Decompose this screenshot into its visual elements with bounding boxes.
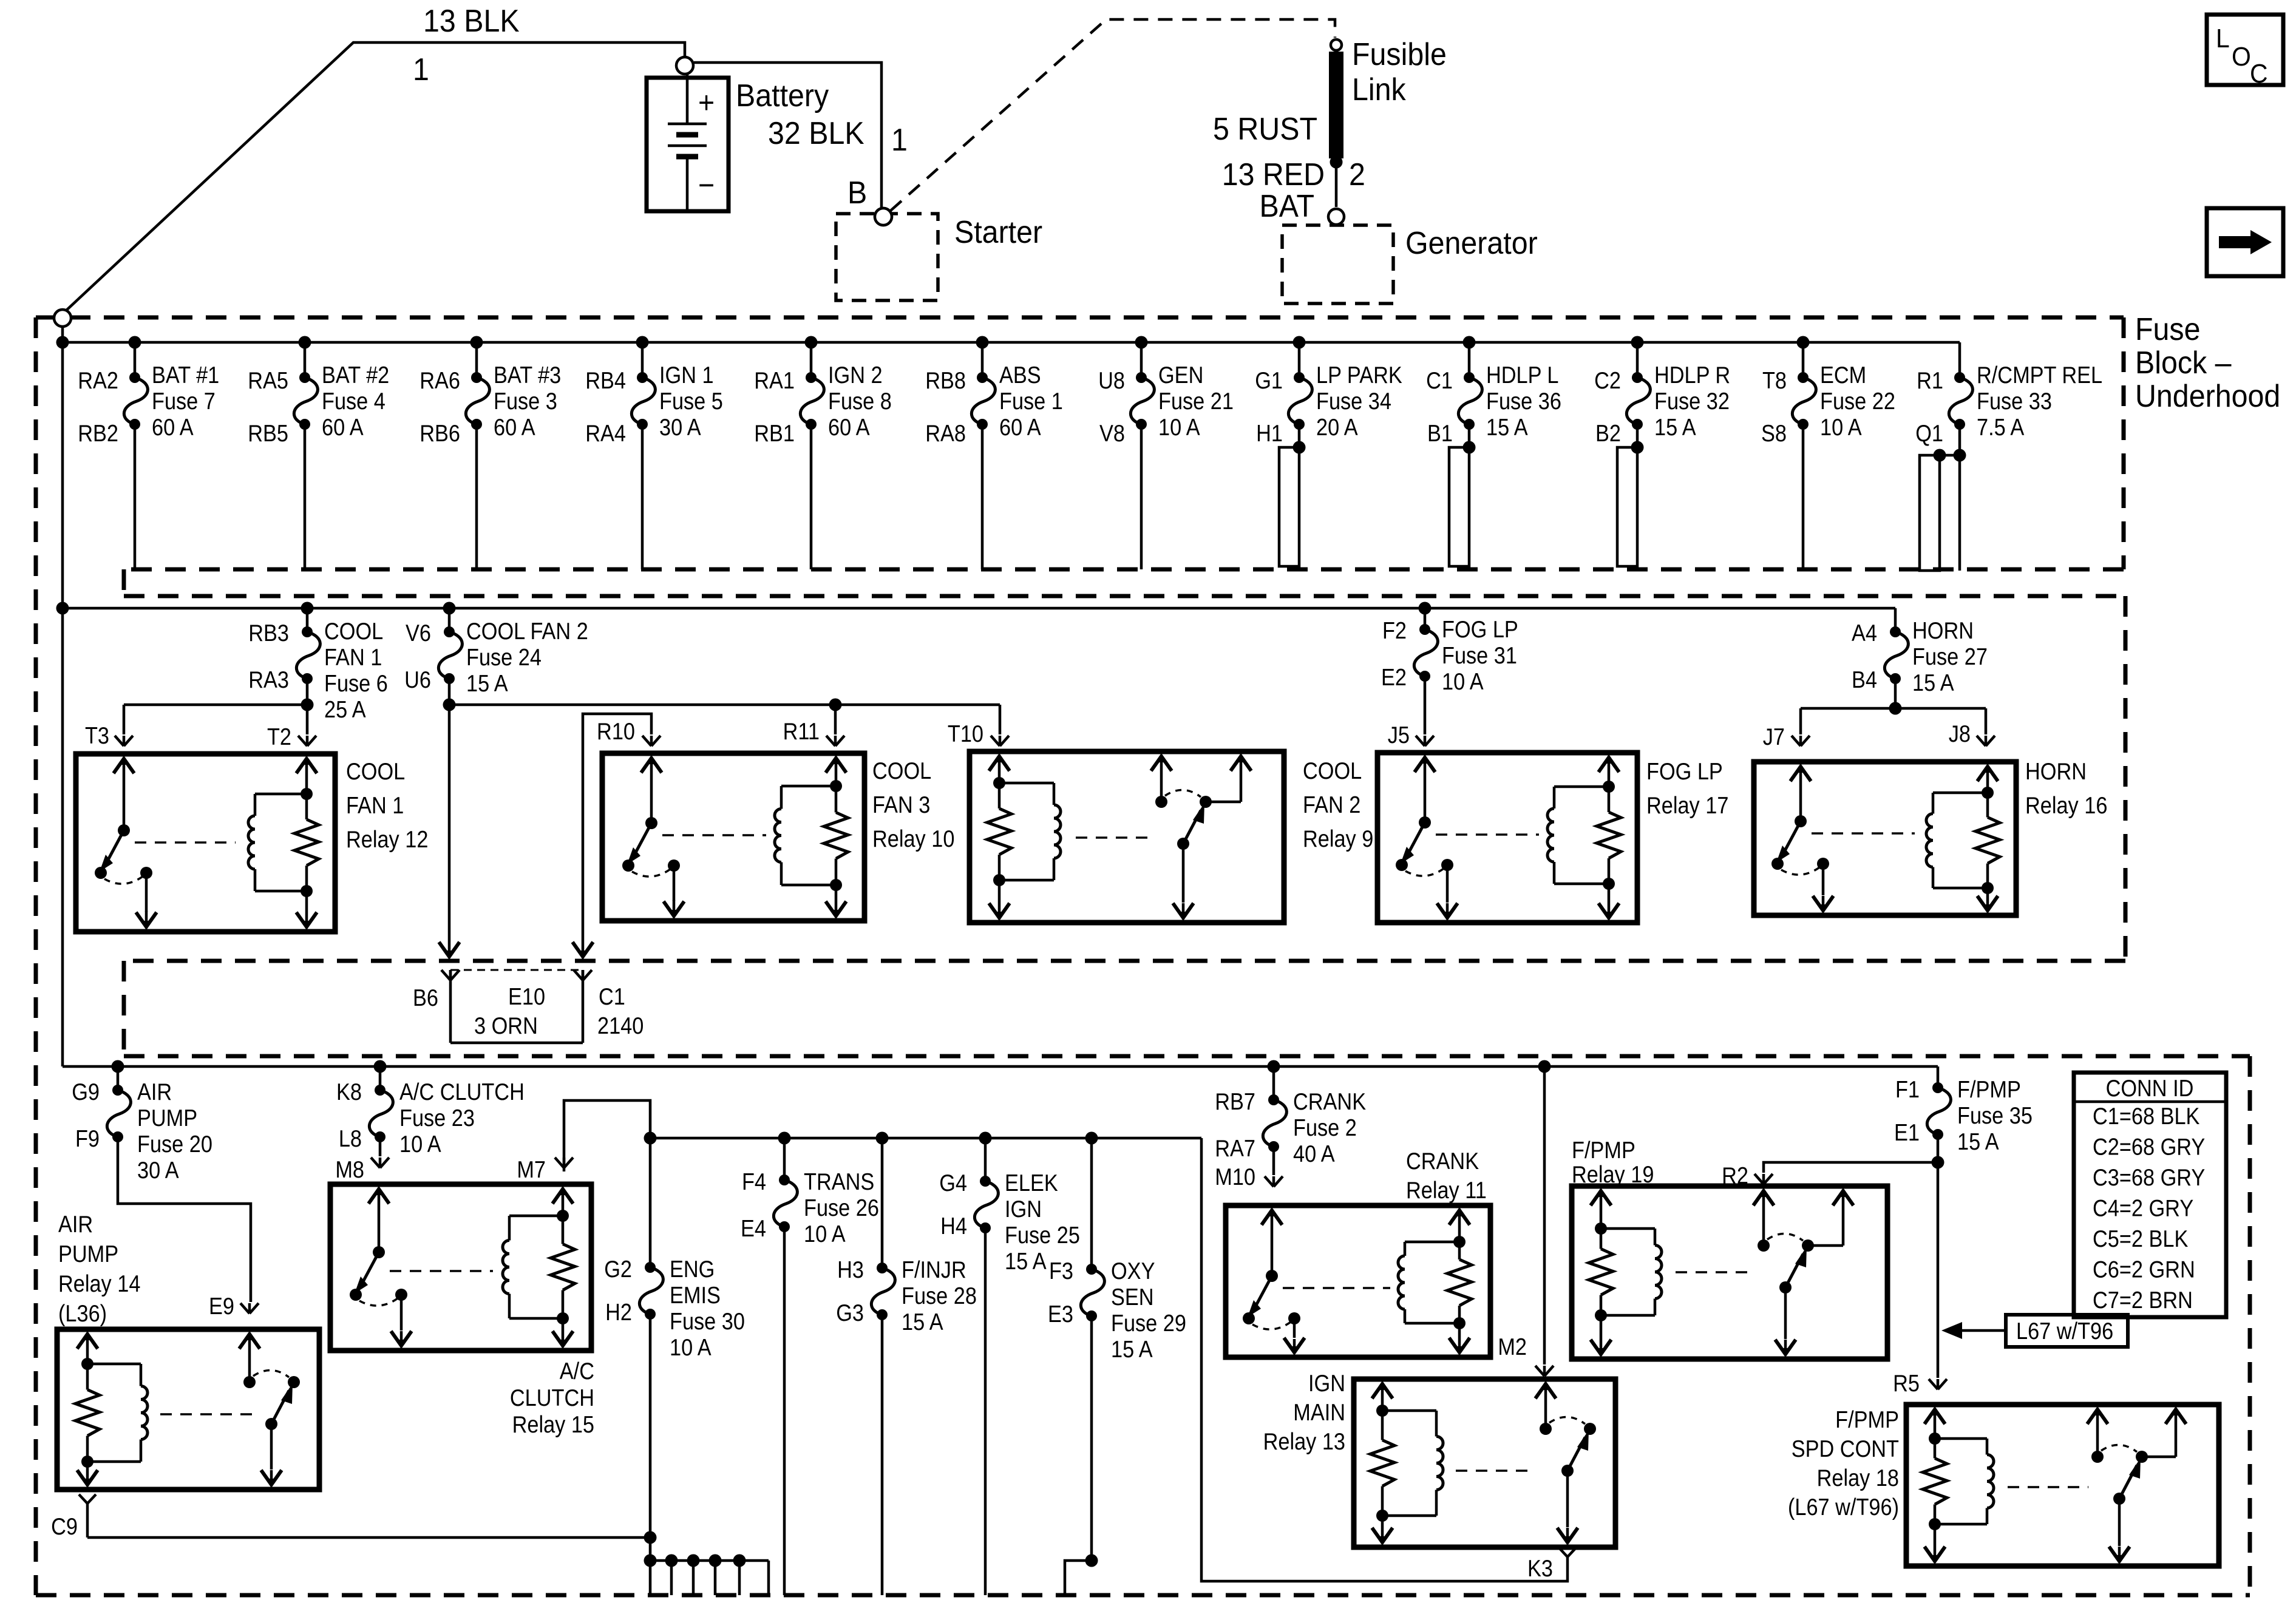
relay 14 AIR PUMP box <box>57 1211 319 1490</box>
fuse F26 TRANS (F4/E4) <box>741 1132 879 1596</box>
fuse block row2 dashed border top <box>124 594 2125 598</box>
svg-text:Fuse 21: Fuse 21 <box>1158 388 1234 415</box>
svg-text:Fuse 31: Fuse 31 <box>1442 642 1517 669</box>
fuse F8 IGN 2 (RA1/RB1) <box>754 336 892 570</box>
svg-text:ELEK: ELEK <box>1005 1170 1058 1196</box>
svg-text:R/CMPT REL: R/CMPT REL <box>1977 362 2102 388</box>
svg-text:SEN: SEN <box>1111 1284 1154 1310</box>
svg-text:Battery: Battery <box>736 78 829 113</box>
wire fusible link to generator <box>1330 156 1343 208</box>
svg-text:Relay 12: Relay 12 <box>346 826 428 853</box>
node fuse block feed <box>54 310 71 327</box>
battery B+ wire to starter corner <box>694 63 881 208</box>
svg-text:G1: G1 <box>1255 367 1283 394</box>
fuse F36 HDLP L (C1/B1) <box>1426 336 1561 567</box>
svg-text:FOG LP: FOG LP <box>1646 758 1723 785</box>
svg-text:C4=2 GRY: C4=2 GRY <box>2093 1195 2193 1221</box>
svg-text:10 A: 10 A <box>399 1131 441 1158</box>
svg-text:K8: K8 <box>336 1079 362 1105</box>
svg-text:Fuse 4: Fuse 4 <box>322 388 385 415</box>
fuse F30 ENG EMIS (G2/H2) <box>604 1256 745 1561</box>
svg-text:Fusible: Fusible <box>1352 36 1447 72</box>
svg-text:RB5: RB5 <box>248 420 288 447</box>
fuse block row2 dashed border right <box>2124 596 2128 961</box>
svg-text:HDLP L: HDLP L <box>1486 362 1558 388</box>
svg-text:Fuse 33: Fuse 33 <box>1977 388 2052 415</box>
node J5 <box>1388 722 1434 748</box>
svg-text:15 A: 15 A <box>1957 1128 1999 1155</box>
svg-text:F/INJR: F/INJR <box>902 1256 966 1283</box>
svg-text:A/C: A/C <box>560 1358 594 1385</box>
label Fusible <box>1352 36 1447 72</box>
label Battery <box>736 78 829 113</box>
svg-text:60 A: 60 A <box>152 414 194 441</box>
svg-text:60 A: 60 A <box>322 414 364 441</box>
svg-text:C: C <box>2250 59 2268 89</box>
svg-text:FAN 2: FAN 2 <box>1303 792 1360 818</box>
relay 9 actuator dashed link <box>1076 836 1152 839</box>
main feed wire left side <box>61 327 64 1066</box>
relay 9 switch contacts <box>1151 754 1251 920</box>
svg-text:15 A: 15 A <box>1654 414 1696 441</box>
node T10 <box>948 720 1009 747</box>
svg-text:E1: E1 <box>1894 1119 1920 1146</box>
fuse F3 BAT #3 (RA6/RB6) <box>419 336 561 570</box>
fuse F20 AIR PUMP (G9/F9) <box>72 1060 251 1303</box>
label 2140 <box>597 1012 644 1039</box>
svg-text:Relay 17: Relay 17 <box>1646 792 1728 819</box>
label wire gauge 2 <box>1349 157 1365 192</box>
svg-text:COOL: COOL <box>346 758 405 785</box>
generator (dashed box) <box>1282 209 1393 303</box>
svg-text:15 A: 15 A <box>902 1309 943 1335</box>
node M10 <box>1265 1176 1283 1187</box>
relay 12 actuator dashed link <box>135 841 236 844</box>
svg-text:(L67 w/T96): (L67 w/T96) <box>1788 1494 1899 1520</box>
svg-text:A4: A4 <box>1852 620 1877 646</box>
svg-text:OXY: OXY <box>1111 1258 1155 1284</box>
label 13 BLK <box>423 3 520 38</box>
fuse block row1 dashed border bottom <box>124 568 2124 572</box>
svg-text:B: B <box>847 175 867 210</box>
fuse block dashed connector row2-row3 <box>122 961 126 1056</box>
svg-text:Link: Link <box>1352 72 1407 107</box>
svg-text:E2: E2 <box>1381 664 1407 691</box>
svg-text:30 A: 30 A <box>137 1157 179 1184</box>
svg-text:AIR: AIR <box>137 1079 172 1105</box>
svg-text:Fuse 7: Fuse 7 <box>152 388 216 415</box>
svg-text:C1: C1 <box>1426 367 1453 394</box>
svg-text:F9: F9 <box>75 1125 100 1152</box>
svg-text:2: 2 <box>1349 157 1365 192</box>
svg-text:B1: B1 <box>1427 420 1453 447</box>
svg-text:Relay 10: Relay 10 <box>872 825 954 852</box>
svg-text:7.5 A: 7.5 A <box>1977 414 2025 441</box>
svg-text:Fuse 8: Fuse 8 <box>828 388 892 415</box>
relay 12 coil and resistor <box>248 756 319 929</box>
svg-text:RB7: RB7 <box>1215 1088 1255 1115</box>
fuse F24 COOL FAN 2 (V6/U6) <box>404 602 588 711</box>
svg-text:CRANK: CRANK <box>1406 1148 1479 1175</box>
fuse F21 GEN (U8/V8) <box>1098 336 1234 570</box>
svg-text:GEN: GEN <box>1158 362 1203 388</box>
svg-text:20 A: 20 A <box>1316 414 1358 441</box>
relay 18 F/PMP SPD CONT box <box>1788 1405 2219 1566</box>
svg-text:IGN: IGN <box>1005 1196 1042 1222</box>
svg-text:Relay 19: Relay 19 <box>1572 1161 1654 1188</box>
svg-text:ABS: ABS <box>999 362 1041 388</box>
svg-text:15 A: 15 A <box>466 670 508 697</box>
svg-text:Fuse 27: Fuse 27 <box>1912 643 1988 670</box>
fuse F33 R/CMPT REL (R1/Q1) <box>1915 342 2102 571</box>
wire K3 to ignition bus <box>1201 1138 1567 1581</box>
svg-text:Relay 11: Relay 11 <box>1406 1177 1487 1204</box>
svg-text:Fuse 25: Fuse 25 <box>1005 1222 1080 1249</box>
svg-text:G4: G4 <box>939 1170 967 1196</box>
svg-text:IGN: IGN <box>1308 1370 1345 1397</box>
svg-text:FAN 3: FAN 3 <box>872 792 930 818</box>
svg-text:Fuse 22: Fuse 22 <box>1820 388 1895 415</box>
svg-text:Relay 15: Relay 15 <box>512 1411 594 1438</box>
relay 15 switch contacts <box>350 1187 412 1348</box>
svg-text:COOL FAN 2: COOL FAN 2 <box>466 618 588 645</box>
label Generator <box>1405 225 1538 260</box>
svg-text:HORN: HORN <box>2025 758 2087 785</box>
svg-text:C3=68 GRY: C3=68 GRY <box>2093 1164 2205 1191</box>
wire C9 ground return <box>87 1520 657 1544</box>
node R5 <box>1893 1370 1947 1397</box>
svg-text:FAN 1: FAN 1 <box>346 792 404 819</box>
fuse block row2 dashed border bottom <box>124 959 2125 963</box>
svg-text:CRANK: CRANK <box>1293 1088 1367 1115</box>
svg-text:T8: T8 <box>1762 367 1787 394</box>
node battery positive terminal <box>676 57 693 74</box>
wire drop to T10 <box>999 705 1002 734</box>
svg-text:Q1: Q1 <box>1915 420 1943 447</box>
svg-text:E4: E4 <box>741 1215 766 1242</box>
svg-text:G2: G2 <box>604 1256 632 1283</box>
fuse block outer dashed border left <box>34 317 38 1595</box>
svg-text:10 A: 10 A <box>804 1221 846 1247</box>
fuse F2 CRANK (RB7/RA7) <box>1215 1060 1366 1190</box>
svg-text:C5=2 BLK: C5=2 BLK <box>2093 1225 2189 1252</box>
svg-text:IGN 2: IGN 2 <box>828 362 883 388</box>
svg-text:Fuse 5: Fuse 5 <box>659 388 723 415</box>
svg-text:HORN: HORN <box>1912 617 1974 644</box>
svg-text:BAT #1: BAT #1 <box>152 362 219 388</box>
relay 16 switch contacts <box>1771 764 1833 913</box>
svg-text:R10: R10 <box>597 718 635 745</box>
svg-text:C1=68 BLK: C1=68 BLK <box>2093 1103 2200 1130</box>
fuse F27 HORN (A4/B4) <box>1852 608 1988 715</box>
svg-text:BAT #3: BAT #3 <box>494 362 561 388</box>
label E10 <box>508 983 545 1010</box>
svg-text:C9: C9 <box>51 1513 78 1540</box>
svg-text:J7: J7 <box>1763 724 1785 750</box>
relay 16 coil and resistor <box>1926 764 2000 913</box>
fusible link <box>1329 52 1343 158</box>
relay 14 actuator dashed link <box>160 1413 260 1415</box>
svg-text:BAT: BAT <box>1260 188 1314 223</box>
svg-text:C2=68 GRY: C2=68 GRY <box>2093 1133 2205 1160</box>
svg-text:A/C CLUTCH: A/C CLUTCH <box>399 1079 525 1105</box>
svg-text:L8: L8 <box>339 1125 362 1152</box>
svg-text:M7: M7 <box>517 1156 546 1183</box>
node J7 <box>1763 724 1810 750</box>
label 13 RED <box>1222 157 1325 192</box>
wire E10-C1 to R10 <box>572 714 651 959</box>
relay 13 IGN MAIN box <box>1263 1370 1615 1547</box>
legend LOC box <box>2207 15 2283 89</box>
fuse block row3 dashed border right <box>2248 1056 2252 1595</box>
svg-text:Fuse 32: Fuse 32 <box>1654 388 1730 415</box>
fuse block outer dashed border top <box>36 316 2124 320</box>
node R11 <box>783 718 844 746</box>
svg-text:Underhood: Underhood <box>2135 378 2280 413</box>
relay 12 COOL FAN 1 box <box>76 754 428 932</box>
svg-text:1: 1 <box>413 52 429 87</box>
svg-text:10 A: 10 A <box>1158 414 1200 441</box>
svg-text:Fuse 35: Fuse 35 <box>1957 1102 2033 1129</box>
label 3 ORN <box>474 1012 538 1039</box>
svg-text:TRANS: TRANS <box>804 1168 874 1195</box>
svg-text:RA7: RA7 <box>1215 1135 1255 1162</box>
svg-text:COOL: COOL <box>324 618 383 645</box>
svg-text:RA8: RA8 <box>925 420 966 447</box>
svg-text:BAT #2: BAT #2 <box>322 362 389 388</box>
svg-text:RB3: RB3 <box>248 620 289 646</box>
svg-text:Fuse 26: Fuse 26 <box>804 1195 879 1221</box>
node C9 <box>51 1494 96 1539</box>
relay 9 COOL FAN 2 box <box>970 751 1373 923</box>
relay 15 A/C CLUTCH box <box>330 1184 594 1437</box>
label B (starter terminal) <box>847 175 867 210</box>
fuse F22 ECM (T8/S8) <box>1761 336 1895 570</box>
svg-text:H3: H3 <box>837 1256 864 1283</box>
svg-text:S8: S8 <box>1761 420 1787 447</box>
svg-text:FAN 1: FAN 1 <box>324 644 382 671</box>
svg-text:Fuse 23: Fuse 23 <box>399 1105 475 1131</box>
svg-text:FOG LP: FOG LP <box>1442 616 1518 643</box>
svg-text:Relay 14: Relay 14 <box>58 1270 140 1297</box>
svg-text:RA3: RA3 <box>248 666 289 693</box>
svg-text:25 A: 25 A <box>324 696 366 723</box>
label Starter <box>954 214 1042 249</box>
bus row2 <box>56 602 1896 615</box>
node T3 <box>85 722 133 749</box>
svg-text:RA4: RA4 <box>585 420 626 447</box>
battery BAT1 <box>647 74 729 211</box>
svg-text:RB8: RB8 <box>925 367 966 394</box>
fuse F5 IGN 1 (RB4/RA4) <box>585 336 723 570</box>
relay 12 switch contacts <box>95 756 157 929</box>
svg-text:Fuse 1: Fuse 1 <box>999 388 1063 415</box>
relay 11 CRANK box <box>1226 1148 1490 1357</box>
fuse block row3 dashed border bottom <box>36 1593 2250 1598</box>
svg-text:Block –: Block – <box>2135 345 2232 380</box>
relay 11 actuator dashed link <box>1283 1287 1390 1289</box>
relay 17 FOG LP box <box>1377 753 1728 923</box>
svg-text:R5: R5 <box>1893 1370 1920 1397</box>
svg-text:T3: T3 <box>85 722 109 749</box>
wire horn fuse to J7/J8 <box>1801 708 1986 734</box>
relay 11 coil and resistor <box>1398 1208 1472 1355</box>
svg-text:MAIN: MAIN <box>1293 1399 1345 1426</box>
svg-text:U6: U6 <box>404 666 431 693</box>
svg-text:60 A: 60 A <box>999 414 1041 441</box>
relay 10 coil and resistor <box>775 756 848 918</box>
relay 18 actuator dashed link <box>2008 1486 2088 1488</box>
svg-text:M10: M10 <box>1215 1164 1255 1190</box>
wire drop to R11 <box>829 699 842 735</box>
svg-text:ECM: ECM <box>1820 362 1866 388</box>
svg-text:L67 w/T96: L67 w/T96 <box>2016 1318 2113 1344</box>
wire F/PMP fuse to R2 <box>1764 1162 1938 1173</box>
bus ignition feeds <box>650 1137 1201 1140</box>
svg-text:F4: F4 <box>742 1168 766 1195</box>
fuse F31 FOG LP (F2/E2) <box>1381 602 1518 735</box>
relay 16 HORN box <box>1754 758 2107 915</box>
node K3 <box>1527 1548 1576 1581</box>
fuse R7 BAT #1 (RA2/RB2) <box>78 336 219 570</box>
svg-text:COOL: COOL <box>872 758 931 784</box>
svg-text:CLUTCH: CLUTCH <box>510 1385 594 1411</box>
svg-text:13 RED: 13 RED <box>1222 157 1325 192</box>
fuse F34 LP PARK (G1/H1) <box>1255 336 1402 567</box>
svg-text:T10: T10 <box>948 720 983 747</box>
node M8 <box>335 1156 389 1183</box>
svg-text:Starter: Starter <box>954 214 1042 249</box>
svg-text:−: − <box>698 168 715 202</box>
svg-text:3 ORN: 3 ORN <box>474 1012 538 1039</box>
svg-text:O: O <box>2232 42 2251 72</box>
dashed wire starter to generator via fusible link <box>891 19 1335 211</box>
svg-text:30 A: 30 A <box>659 414 701 441</box>
callout L67 w/T96 <box>1941 1315 2128 1347</box>
svg-text:H1: H1 <box>1256 420 1283 447</box>
starter (dashed box) <box>836 208 938 300</box>
fuse F28 F/INJR (H3/G3) <box>836 1132 977 1596</box>
svg-text:COOL: COOL <box>1303 758 1362 784</box>
fuse F4 BAT #2 (RA5/RB5) <box>248 336 389 570</box>
svg-text:10 A: 10 A <box>1820 414 1862 441</box>
fuse block row3 dashed border top <box>124 1054 2250 1059</box>
label Fuse Block - Underhood <box>2135 311 2280 413</box>
svg-text:Fuse 20: Fuse 20 <box>137 1131 212 1158</box>
svg-text:Fuse 3: Fuse 3 <box>494 388 557 415</box>
relay 19 F/PMP box <box>1572 1137 1887 1359</box>
svg-text:RB1: RB1 <box>754 420 795 447</box>
svg-text:H4: H4 <box>940 1213 967 1239</box>
svg-text:32 BLK: 32 BLK <box>768 115 864 151</box>
label 5 RUST <box>1213 111 1317 146</box>
svg-text:Fuse 30: Fuse 30 <box>670 1308 745 1335</box>
svg-text:40 A: 40 A <box>1293 1141 1335 1167</box>
svg-text:Relay 13: Relay 13 <box>1263 1428 1345 1455</box>
node C1 (connector E10) <box>574 970 625 1009</box>
svg-text:10 A: 10 A <box>1442 668 1484 695</box>
relay 19 actuator dashed link <box>1676 1271 1754 1273</box>
relay 17 actuator dashed link <box>1436 833 1539 836</box>
svg-text:+: + <box>698 86 715 120</box>
svg-text:R11: R11 <box>783 718 820 745</box>
legend arrow box <box>2207 208 2283 276</box>
label wire gauge 1 (32 BLK) <box>891 122 908 157</box>
connector ID legend table <box>2074 1073 2226 1317</box>
fuse block dashed connector row1-row2 <box>122 569 126 596</box>
svg-text:Fuse 29: Fuse 29 <box>1111 1310 1186 1337</box>
svg-text:RB6: RB6 <box>419 420 460 447</box>
relay 14 coil and resistor <box>75 1332 148 1487</box>
svg-text:U8: U8 <box>1098 367 1125 394</box>
wire 13 BLK from battery to fuse block <box>63 42 685 314</box>
svg-text:Fuse 28: Fuse 28 <box>902 1283 977 1309</box>
svg-text:V8: V8 <box>1099 420 1125 447</box>
svg-text:60 A: 60 A <box>828 414 870 441</box>
svg-text:RA1: RA1 <box>754 367 795 394</box>
svg-text:ENG: ENG <box>670 1256 715 1283</box>
relay 17 coil and resistor <box>1547 755 1621 920</box>
svg-text:F/PMP: F/PMP <box>1957 1076 2021 1103</box>
svg-text:J5: J5 <box>1388 722 1410 748</box>
svg-text:13 BLK: 13 BLK <box>423 3 520 38</box>
svg-text:F1: F1 <box>1895 1076 1920 1103</box>
svg-text:15 A: 15 A <box>1005 1248 1047 1275</box>
relay 18 coil and resistor <box>1923 1407 1994 1564</box>
svg-text:E3: E3 <box>1048 1301 1073 1327</box>
relay 17 switch contacts <box>1396 755 1458 920</box>
svg-text:J8: J8 <box>1949 720 1971 747</box>
svg-text:EMIS: EMIS <box>670 1282 721 1309</box>
relay 16 actuator dashed link <box>1812 832 1915 835</box>
svg-text:RA5: RA5 <box>248 367 288 394</box>
svg-text:Fuse 2: Fuse 2 <box>1293 1114 1357 1141</box>
svg-text:60 A: 60 A <box>494 414 535 441</box>
wire fuse24 to connector B6 <box>439 705 460 959</box>
svg-text:Fuse 24: Fuse 24 <box>466 644 542 671</box>
svg-text:RB4: RB4 <box>585 367 626 394</box>
svg-text:G3: G3 <box>836 1300 864 1326</box>
relay 15 coil and resistor <box>503 1187 575 1348</box>
svg-text:Relay 18: Relay 18 <box>1817 1465 1899 1491</box>
node fusible link top <box>1331 39 1342 50</box>
label BAT <box>1260 188 1314 223</box>
svg-text:CONN ID: CONN ID <box>2106 1075 2194 1102</box>
relay 13 actuator dashed link <box>1456 1470 1535 1472</box>
node B6 <box>413 970 460 1011</box>
svg-text:B4: B4 <box>1852 666 1877 693</box>
svg-text:G9: G9 <box>72 1079 100 1105</box>
relay 9 coil and resistor <box>987 754 1061 920</box>
svg-text:C6=2 GRN: C6=2 GRN <box>2093 1256 2195 1283</box>
node M7 <box>517 1156 573 1183</box>
fuse F35 F/PMP (F1/E1) <box>1894 1066 2033 1378</box>
relay 11 switch contacts <box>1243 1208 1305 1355</box>
relay 13 switch contacts <box>1535 1381 1596 1545</box>
svg-text:B2: B2 <box>1595 420 1621 447</box>
relay 10 COOL FAN 3 box <box>602 753 954 921</box>
svg-text:SPD CONT: SPD CONT <box>1792 1436 1899 1462</box>
svg-text:E9: E9 <box>209 1293 234 1320</box>
fuse block row1 dashed border right <box>2122 317 2126 569</box>
svg-text:Fuse 34: Fuse 34 <box>1316 388 1391 415</box>
svg-text:AIR: AIR <box>58 1211 93 1238</box>
node starter B terminal <box>875 208 892 225</box>
svg-text:L: L <box>2216 24 2230 54</box>
svg-text:F2: F2 <box>1382 617 1407 644</box>
bus row3 <box>63 1065 1938 1068</box>
svg-text:M2: M2 <box>1498 1334 1527 1360</box>
